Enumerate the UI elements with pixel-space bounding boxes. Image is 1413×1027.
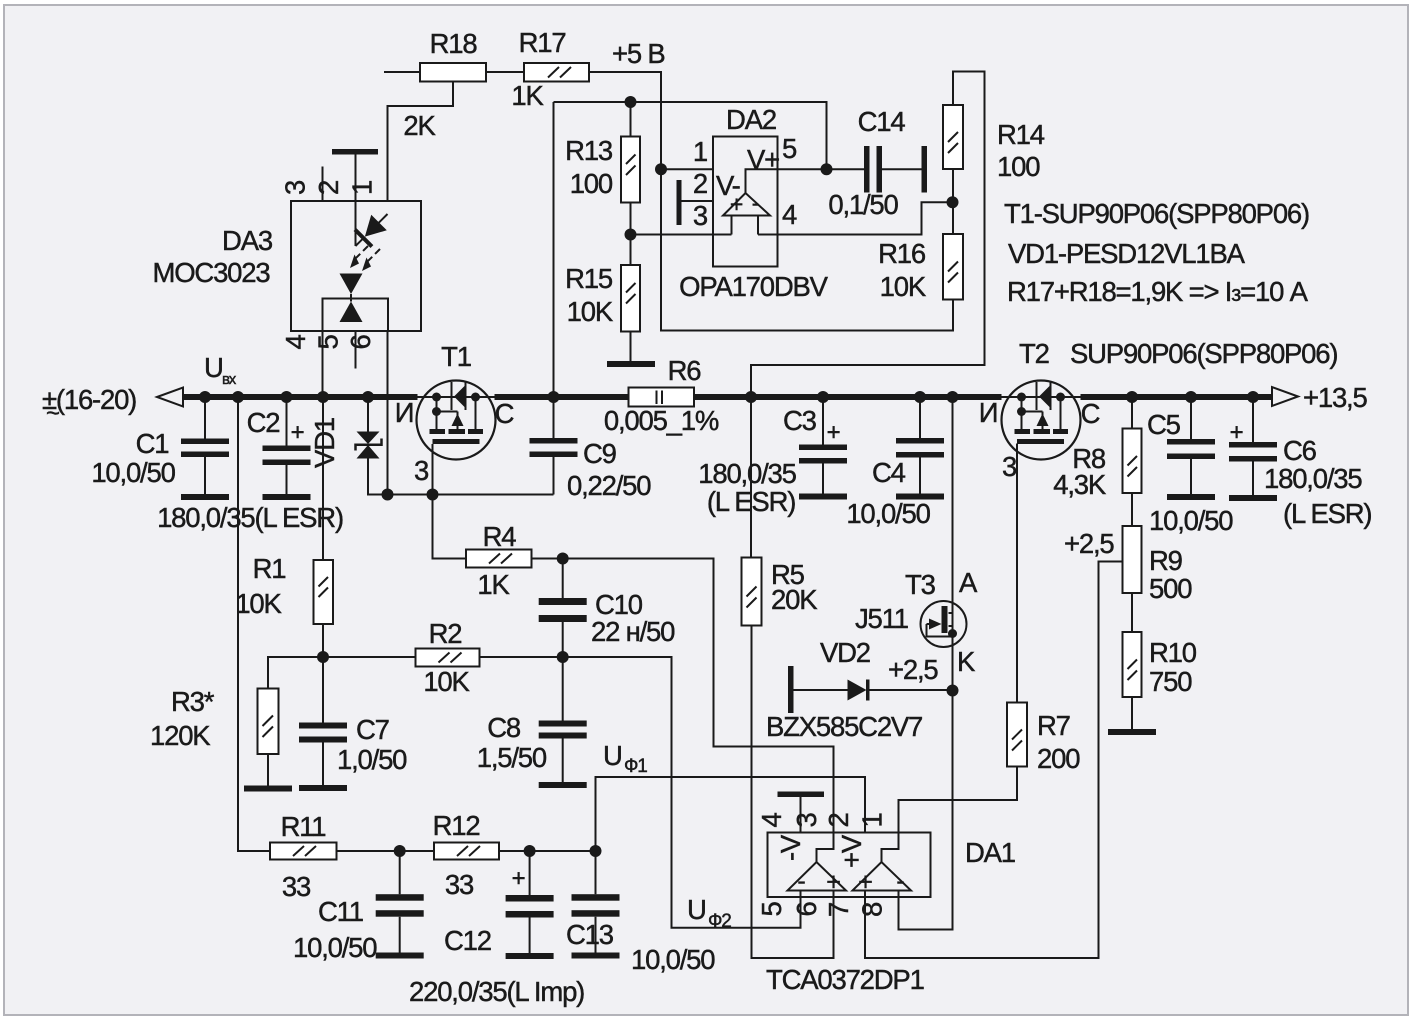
resistor R10 — [1123, 632, 1142, 697]
wire DA3 pin4 to bus — [322, 331, 324, 397]
svg-text:VD1: VD1 — [309, 418, 340, 468]
DA3 output cell box — [323, 299, 389, 332]
svg-text:22 н/50: 22 н/50 — [591, 616, 675, 647]
resistor R13 — [621, 137, 640, 203]
svg-text:DA3: DA3 — [222, 225, 273, 256]
svg-text:1: 1 — [347, 181, 378, 195]
wire C4 leads — [919, 397, 921, 494]
wire C8 leads — [562, 657, 564, 782]
svg-text:И: И — [979, 397, 998, 428]
svg-text:5: 5 — [782, 133, 797, 164]
wire C11 leads — [399, 851, 401, 953]
svg-text:BZX585C2V7: BZX585C2V7 — [766, 711, 922, 742]
DA2 input legs — [732, 216, 759, 235]
svg-text:10,0/50: 10,0/50 — [91, 457, 175, 488]
svg-text:R16: R16 — [878, 238, 926, 269]
capacitor C12 — [506, 895, 554, 902]
wire R1 leads — [322, 397, 324, 657]
transistor T1 circle — [417, 381, 496, 460]
wire R14 top to sense corner — [751, 72, 985, 398]
wire C6 leads — [1252, 397, 1254, 495]
wire DA3 pin6 column crossing bus — [387, 331, 389, 495]
svg-text:R14: R14 — [997, 119, 1045, 150]
transistor T3 gate arrow — [929, 619, 942, 630]
wire C5 leads — [1190, 397, 1192, 494]
ground VD2 — [788, 666, 794, 713]
resistor R12 — [434, 843, 499, 860]
wire R5 bottom to DA1 pin6 route — [752, 626, 834, 959]
resistor R5 — [742, 558, 762, 626]
svg-text:~: ~ — [46, 400, 59, 427]
resistor slash marks — [263, 67, 1138, 856]
svg-text:7: 7 — [823, 903, 854, 917]
node DA2 pin1 dot — [655, 163, 667, 175]
svg-text:1K: 1K — [477, 569, 510, 600]
capacitor C11 — [376, 894, 424, 901]
transistor T2 electrode pads — [1015, 429, 1069, 444]
svg-text:+: + — [730, 191, 743, 217]
svg-text:-V: -V — [775, 834, 806, 861]
svg-text:T2: T2 — [1019, 338, 1049, 369]
node DA2 pin5 dot — [821, 163, 833, 175]
svg-text:R6: R6 — [668, 355, 702, 386]
wire +2.5 node down to DA1 pin8 — [899, 691, 953, 930]
node C13-Uf1 dot — [590, 845, 602, 857]
capacitor C13 — [572, 894, 620, 901]
node R14-R16 dot — [947, 196, 959, 208]
svg-text:T3: T3 — [905, 569, 936, 600]
ground R15 — [607, 361, 655, 367]
svg-text:1,5/50: 1,5/50 — [477, 742, 547, 773]
wire R14-R16 junction leads — [952, 169, 954, 234]
op-amp DA3 box — [291, 201, 421, 331]
svg-text:J511: J511 — [855, 603, 908, 634]
svg-text:И: И — [395, 397, 414, 428]
svg-text:+: + — [1230, 419, 1243, 446]
wire DA3 pin5 stub — [355, 331, 357, 369]
capacitor C9 — [530, 438, 578, 444]
wire C2 leads — [286, 397, 288, 494]
node R11-C11 dot — [394, 845, 406, 857]
resistor R7 — [1007, 703, 1027, 767]
svg-text:4: 4 — [782, 199, 797, 230]
wire Ufi1 line to DA1 pin2 — [596, 777, 866, 851]
svg-text:0,1/50: 0,1/50 — [828, 189, 898, 220]
wire DA2 pin2 to gnd bar — [682, 200, 714, 202]
svg-text:U: U — [687, 894, 706, 925]
op-amp DA1 box — [768, 833, 931, 898]
capacitor C14 — [864, 146, 870, 193]
resistor R3 — [258, 689, 279, 755]
resistor R6 — [629, 388, 695, 407]
op-amp DA2 box — [713, 137, 778, 267]
capacitor C4 — [896, 438, 944, 444]
transistor T1 substrate arrow — [452, 414, 464, 427]
wire DA2 pin4 line to R14/R16 node — [758, 202, 953, 234]
svg-text:(L ESR): (L ESR) — [1283, 498, 1371, 529]
svg-text:K: K — [957, 646, 976, 677]
svg-text:180,0/35(L ESR): 180,0/35(L ESR) — [157, 502, 343, 533]
svg-text:TCA0372DP1: TCA0372DP1 — [766, 964, 924, 995]
ground C11 — [376, 953, 424, 959]
wire R4 right to node — [532, 558, 563, 560]
svg-text:Ф2: Ф2 — [708, 911, 731, 932]
svg-text:C8: C8 — [487, 712, 521, 743]
wire R8 chain leads — [1131, 397, 1133, 729]
node +2.5 dot — [947, 685, 959, 697]
ground DA3 pin2 — [332, 149, 378, 155]
svg-text:A: A — [959, 567, 978, 598]
capacitor C6 — [1229, 442, 1277, 448]
svg-text:VD2: VD2 — [820, 637, 870, 668]
DA3 triac — [340, 274, 363, 295]
wire T3 cathode to +2.5 node — [952, 637, 954, 691]
svg-text:1: 1 — [857, 813, 888, 827]
diode VD2 triangle — [848, 680, 867, 701]
svg-text:C1: C1 — [136, 428, 169, 459]
svg-text:SUP90P06(SPP80P06): SUP90P06(SPP80P06) — [1070, 338, 1337, 369]
ground C5 — [1167, 494, 1215, 500]
wire R4 node to DA1 pin3 — [563, 559, 834, 833]
diode VD2 cathode bar — [866, 680, 870, 701]
svg-text:3: 3 — [791, 813, 822, 828]
svg-text:1K: 1K — [511, 80, 544, 111]
node R2-C10 dot — [557, 651, 569, 663]
svg-text:10,0/50: 10,0/50 — [631, 944, 715, 975]
capacitor C2 — [263, 446, 311, 452]
transistor T2 source/drain dots — [1017, 393, 1065, 417]
resistor R18 — [420, 63, 486, 82]
svg-text:-: - — [752, 190, 759, 216]
capacitor C3 — [799, 445, 847, 451]
svg-text:C14: C14 — [858, 106, 906, 137]
svg-text:MOC3023: MOC3023 — [153, 257, 271, 288]
diode VD1 upper triangle — [357, 432, 380, 445]
svg-text:C13: C13 — [566, 919, 614, 950]
ground C1 — [181, 494, 229, 500]
wire R12 to C13 node — [499, 850, 596, 852]
svg-text:750: 750 — [1149, 666, 1192, 697]
transistor T3 channel bar — [942, 606, 948, 633]
node gate line dots — [382, 489, 394, 501]
ground C12 — [506, 953, 554, 959]
svg-text:10K: 10K — [235, 588, 282, 619]
ground C2 — [263, 494, 311, 500]
svg-text:5: 5 — [313, 335, 344, 350]
svg-text:вх: вх — [222, 371, 237, 388]
svg-text:R7: R7 — [1037, 710, 1070, 741]
diode VD1 z-bar — [356, 439, 382, 451]
ground C13 — [572, 953, 620, 959]
wire DA2 top rail — [554, 102, 827, 169]
wire R18 left stub — [384, 71, 420, 73]
resistor R8 — [1123, 429, 1142, 494]
svg-text:10K: 10K — [880, 271, 927, 302]
wire C12 leads — [529, 851, 531, 953]
ground R10 — [1108, 729, 1156, 735]
svg-text:R15: R15 — [565, 263, 613, 294]
DA1 amp1 legs and output step — [801, 833, 834, 898]
svg-text:V+: V+ — [747, 144, 779, 175]
svg-text:2: 2 — [313, 181, 344, 195]
wire left column x238 down to R11 — [238, 397, 270, 851]
svg-text:R10: R10 — [1149, 637, 1197, 668]
wire R2 node to DA1 pin5 route — [563, 657, 801, 928]
svg-text:100: 100 — [997, 151, 1040, 182]
svg-text:+: + — [858, 868, 872, 896]
svg-text:2: 2 — [823, 813, 854, 827]
transistor T2 substrate arrow — [1037, 414, 1049, 427]
transistor T1 electrode pads — [430, 429, 484, 444]
svg-text:1: 1 — [693, 136, 707, 167]
ground DA2 pin2 — [677, 180, 682, 225]
DA3 pin2 inner lead — [355, 155, 357, 247]
capacitor C10 — [539, 598, 587, 605]
svg-text:OPA170DBV: OPA170DBV — [679, 271, 829, 302]
node R12-C12 dot — [524, 845, 536, 857]
svg-text:10,0/50: 10,0/50 — [293, 932, 377, 963]
transistor T2 body diode — [1039, 385, 1051, 408]
svg-text:R12: R12 — [433, 810, 480, 841]
svg-text:+2,5: +2,5 — [1064, 528, 1114, 559]
svg-text:C9: C9 — [583, 438, 616, 469]
svg-text:C3: C3 — [783, 405, 817, 436]
svg-text:R17+R18=1,9K => Iз=10 A: R17+R18=1,9K => Iз=10 A — [1007, 276, 1309, 307]
svg-text:0,005_1%: 0,005_1% — [604, 405, 719, 436]
main bus wire thick segments — [183, 394, 1272, 400]
ground C3 — [799, 494, 847, 500]
DA3 IR arrows — [355, 246, 380, 262]
wire VD2 leads — [794, 689, 953, 691]
svg-text:VD1-PESD12VL1BA: VD1-PESD12VL1BA — [1008, 238, 1246, 269]
svg-text:20K: 20K — [771, 584, 818, 615]
svg-text:(L ESR): (L ESR) — [707, 486, 795, 517]
ground C6 — [1229, 495, 1277, 501]
svg-text:+: + — [827, 419, 840, 446]
node R4-C10 dot — [557, 553, 569, 565]
svg-text:DA1: DA1 — [965, 837, 1015, 868]
wire R17 to +5V corner down to DA2 pin1 and R16 bottom rail — [589, 72, 953, 331]
wire R11-R12 segment — [337, 850, 435, 852]
wire R15 leads — [630, 235, 632, 362]
DA3 LED — [347, 206, 396, 255]
wire R13 leads — [630, 102, 632, 235]
svg-text:180,0/35: 180,0/35 — [1264, 463, 1362, 494]
svg-text:+: + — [826, 868, 840, 896]
wire thin bus through T1 — [418, 396, 495, 398]
svg-text:+: + — [512, 865, 525, 892]
resistor R11 — [270, 843, 337, 860]
svg-text:C6: C6 — [1283, 435, 1317, 466]
wire R7 bottom to DA1 pin1 — [899, 767, 1018, 833]
wire C10 leads — [562, 559, 564, 658]
wire C1 leads — [204, 397, 206, 494]
svg-text:R4: R4 — [483, 521, 517, 552]
svg-text:C12: C12 — [444, 925, 491, 956]
wire R5 top lead — [750, 397, 752, 558]
capacitor C5 — [1167, 439, 1215, 445]
wire R18 tap down-left to DA3 pin1 — [388, 82, 454, 202]
ground R3 — [244, 786, 292, 792]
transistor T1 body diode — [454, 385, 466, 408]
wire thin bus through T2 — [1002, 396, 1081, 398]
diode VD1 lower triangle — [357, 445, 380, 459]
svg-text:1,0/50: 1,0/50 — [337, 744, 407, 775]
svg-text:C11: C11 — [318, 896, 363, 927]
svg-text:С: С — [495, 398, 514, 429]
svg-text:+V: +V — [836, 834, 867, 868]
svg-text:4: 4 — [280, 335, 311, 350]
resistor R9 — [1123, 526, 1142, 593]
wire C9 column — [553, 397, 555, 495]
svg-text:R11: R11 — [281, 811, 326, 842]
svg-text:180,0/35: 180,0/35 — [698, 458, 796, 489]
ground C14 — [922, 146, 928, 193]
svg-text:+2,5: +2,5 — [888, 654, 938, 685]
svg-text:C5: C5 — [1147, 409, 1181, 440]
svg-text:120K: 120K — [150, 720, 211, 751]
svg-text:3: 3 — [280, 180, 311, 195]
wire DA2 pin3 line — [631, 234, 732, 236]
svg-text:6: 6 — [345, 335, 376, 350]
svg-text:+13,5: +13,5 — [1303, 382, 1367, 413]
svg-text:4,3K: 4,3K — [1053, 469, 1107, 500]
svg-text:33: 33 — [445, 869, 474, 900]
wire T1 gate down to R4 — [433, 444, 467, 559]
node R13-R15 dot — [625, 229, 637, 241]
wire C13 leads — [595, 851, 597, 953]
node dots on bus — [199, 391, 211, 403]
transistor T2 circle — [1002, 381, 1081, 460]
svg-text:-: - — [797, 867, 805, 895]
wire supply column x553 bus to rail — [553, 102, 555, 397]
capacitor C7 — [299, 723, 347, 729]
svg-text:3: 3 — [1002, 451, 1017, 482]
svg-text:-: - — [896, 867, 904, 895]
svg-text:2: 2 — [693, 168, 707, 199]
wire DA1 pin7 to +2.5 column — [865, 562, 1123, 959]
svg-text:220,0/35(L Imp): 220,0/35(L Imp) — [409, 976, 584, 1007]
svg-text:R17: R17 — [519, 27, 566, 58]
svg-text:3: 3 — [693, 200, 708, 231]
wire R3 branch — [268, 657, 323, 786]
wire C7 leads — [322, 657, 324, 785]
resistor R6 shunt marks — [657, 391, 663, 405]
resistor R4 — [466, 550, 532, 568]
resistor R2 — [416, 649, 480, 667]
ground C7 — [299, 785, 347, 791]
transistor T3 source dot — [948, 629, 957, 638]
svg-text:U: U — [204, 352, 223, 383]
svg-text:4: 4 — [756, 813, 787, 828]
svg-text:R3*: R3* — [171, 686, 215, 717]
resistor R17 — [524, 63, 589, 82]
resistor R14 — [943, 105, 963, 169]
svg-text:R13: R13 — [565, 135, 613, 166]
wire R2 line — [323, 656, 563, 658]
svg-text:+: + — [291, 419, 304, 446]
wire DA1 pin4 stub — [800, 797, 802, 833]
DA2 triangle — [723, 193, 770, 216]
svg-text:3: 3 — [414, 455, 429, 486]
node output arrow — [1272, 387, 1298, 406]
svg-text:U: U — [603, 740, 622, 771]
node input arrow — [157, 388, 183, 407]
svg-text:C4: C4 — [872, 457, 906, 488]
resistor R1 — [314, 560, 334, 624]
svg-text:R18: R18 — [430, 28, 478, 59]
wire T3 column top — [952, 397, 954, 613]
capacitor C1 — [181, 439, 229, 445]
svg-text:10K: 10K — [567, 296, 614, 327]
svg-text:C7: C7 — [356, 714, 389, 745]
resistor R15 — [621, 265, 640, 332]
svg-text:C2: C2 — [247, 407, 280, 438]
transistor T3 circle — [921, 601, 967, 647]
svg-text:200: 200 — [1037, 743, 1080, 774]
capacitor C8 — [539, 721, 587, 727]
wire DA2 pin5 — [778, 168, 827, 170]
svg-text:6: 6 — [791, 902, 822, 917]
DA2 V+ inner lead — [746, 169, 778, 193]
node R1-R2 dot — [317, 651, 329, 663]
ground C8 — [539, 782, 587, 788]
svg-text:Ф1: Ф1 — [624, 756, 647, 777]
wire R18-R17 — [486, 71, 524, 73]
svg-text:10K: 10K — [423, 666, 470, 697]
DA3 pin3 stub — [322, 167, 324, 202]
svg-text:DA2: DA2 — [726, 104, 776, 135]
wire C14 leads — [827, 168, 922, 170]
transistor T1 source/drain dots — [432, 393, 480, 417]
wire VD1 leads and gate node line — [368, 397, 554, 495]
node +5V rail dot — [625, 96, 637, 108]
svg-text:С: С — [1081, 398, 1100, 429]
svg-text:+5 В: +5 В — [612, 38, 665, 69]
svg-text:10,0/50: 10,0/50 — [1149, 505, 1233, 536]
DA1 amp2 legs and output step — [865, 833, 899, 898]
svg-text:5: 5 — [756, 902, 787, 917]
svg-text:10,0/50: 10,0/50 — [846, 498, 930, 529]
DA1 amp1 triangle — [788, 862, 847, 891]
DA1 amp2 triangle — [853, 862, 912, 891]
svg-text:0,22/50: 0,22/50 — [567, 470, 651, 501]
svg-text:500: 500 — [1149, 573, 1192, 604]
svg-text:T1: T1 — [441, 341, 471, 372]
svg-text:T1-SUP90P06(SPP80P06): T1-SUP90P06(SPP80P06) — [1004, 198, 1309, 229]
wire T2 gate to R7 — [1016, 444, 1018, 703]
svg-text:100: 100 — [570, 168, 613, 199]
svg-text:R9: R9 — [1149, 545, 1182, 576]
svg-text:R2: R2 — [429, 618, 462, 649]
wire C3 leads — [822, 397, 824, 494]
svg-text:R1: R1 — [253, 553, 286, 584]
ground DA1 pin4 — [778, 792, 825, 798]
resistor R16 — [943, 234, 963, 300]
svg-text:8: 8 — [857, 902, 888, 917]
ground C4 — [896, 494, 944, 500]
svg-text:33: 33 — [282, 871, 311, 902]
svg-text:2K: 2K — [403, 110, 436, 141]
wire DA2 pin1 — [661, 168, 713, 170]
